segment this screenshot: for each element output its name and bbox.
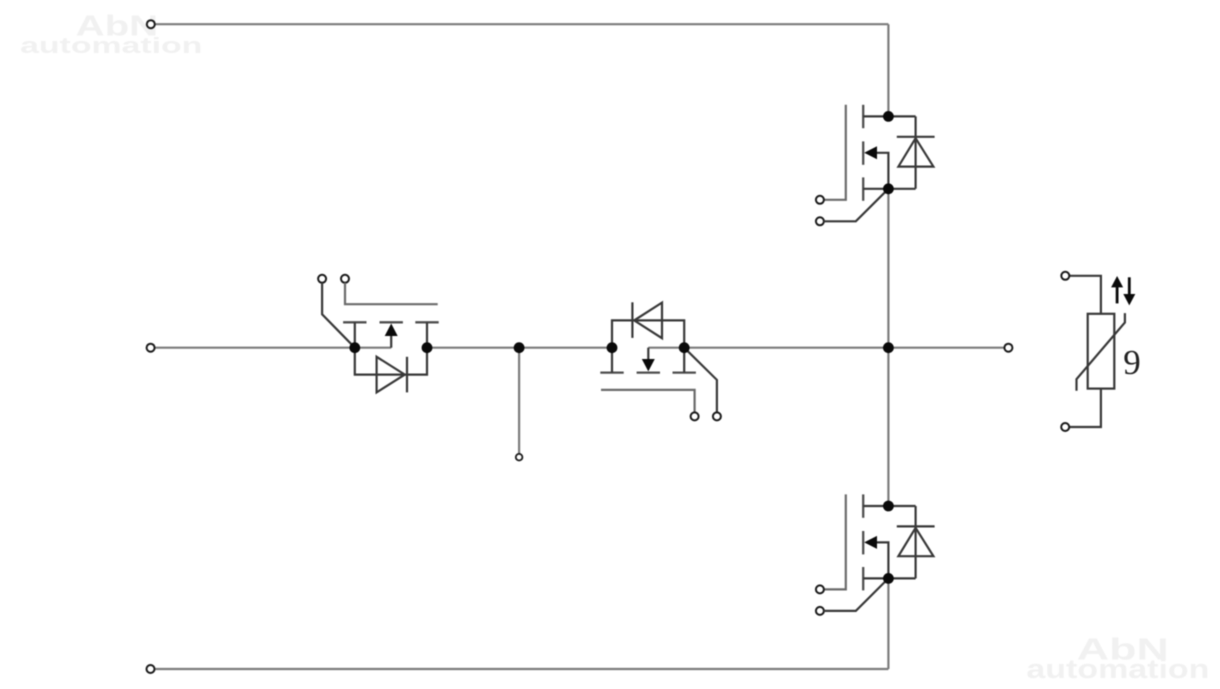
svg-text:9: 9: [1123, 343, 1141, 382]
svg-text:automation: automation: [1026, 653, 1209, 684]
svg-text:automation: automation: [20, 34, 202, 59]
